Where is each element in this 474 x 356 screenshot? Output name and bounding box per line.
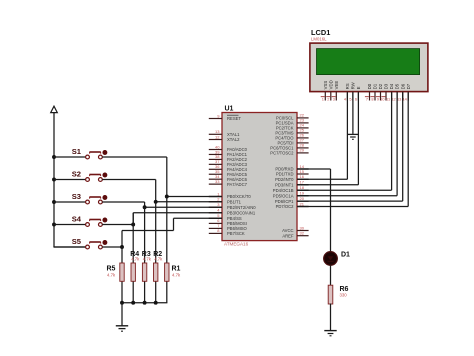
- pin PB3/OC0/AIN1 (pin 4): [209, 208, 256, 216]
- svg-text:VSS: VSS: [323, 81, 328, 90]
- resistor R2 4.7k: [154, 263, 158, 281]
- pin PC6/TOSC1 (pin 28): [270, 143, 308, 151]
- pin PC4/TDO (pin 26): [275, 133, 308, 141]
- value ATMEGA16: [224, 241, 249, 246]
- node rail junction S2: [52, 178, 56, 182]
- pin PA6/ADC6 (pin 34): [209, 174, 248, 182]
- wire U1 PD2 to LCD RS: [297, 92, 347, 179]
- pin LCD D2 (pin 9): [377, 83, 383, 101]
- pin PA7/ADC7 (pin 33): [209, 179, 248, 187]
- pin PD6/ICP1 (pin 20): [275, 196, 309, 204]
- RESET overline: [227, 114, 239, 116]
- pin PC1/SDA (pin 23): [276, 118, 309, 126]
- label D1: [341, 252, 350, 259]
- node LCD D0 open-end mark: [365, 96, 369, 98]
- node rail junction S1: [52, 155, 56, 159]
- pin PD2/INT0 (pin 16): [275, 174, 308, 182]
- svg-text:PB2/INT2/AIN0: PB2/INT2/AIN0: [227, 205, 256, 210]
- pin PC3/TMS (pin 25): [275, 128, 308, 136]
- wire VCC rail corner to S5: [53, 246, 85, 248]
- svg-text:4.7k: 4.7k: [143, 257, 152, 262]
- svg-text:U1: U1: [225, 106, 234, 113]
- resistor R4 4.7k: [131, 263, 135, 281]
- svg-text:6: 6: [355, 96, 357, 101]
- pin PB4/SS (pin 5): [209, 213, 242, 221]
- node LCD VEE open-end mark: [332, 96, 336, 98]
- label R1: [172, 266, 181, 273]
- wire resistor bottom rail: [122, 302, 167, 304]
- svg-text:4.7k: 4.7k: [172, 273, 181, 278]
- wire resistor R3 column: [144, 207, 146, 303]
- svg-text:1: 1: [217, 191, 220, 196]
- wire S4 to PB3: [102, 213, 222, 225]
- node bottom rail junction R5: [120, 301, 124, 305]
- pin LCD D6 (pin 13): [397, 83, 405, 101]
- wire U1 PD3 to LCD E: [297, 92, 358, 185]
- svg-text:S5: S5: [72, 237, 82, 246]
- wire rail to S4 left terminal: [54, 224, 85, 226]
- wire U1 PD0 to LED D1: [297, 169, 331, 252]
- switch S3: [86, 195, 108, 204]
- pin PB0/XCK/T0 (pin 1): [209, 191, 252, 199]
- svg-text:D5: D5: [395, 83, 400, 89]
- svg-text:S3: S3: [72, 192, 81, 201]
- label R2: [153, 251, 162, 258]
- svg-text:PB0/XCK/T0: PB0/XCK/T0: [227, 194, 251, 199]
- value R1 4.7k: [172, 273, 181, 278]
- switch S4: [86, 218, 108, 227]
- svg-text:4: 4: [344, 96, 347, 101]
- svg-text:E: E: [356, 86, 361, 89]
- pin PA1/ADC1 (pin 39): [209, 149, 248, 157]
- svg-text:D2: D2: [378, 83, 383, 89]
- svg-text:PD5/OC1A: PD5/OC1A: [273, 193, 294, 198]
- pin PA3/ADC3 (pin 37): [209, 159, 248, 167]
- wire rail to S5 left terminal: [54, 246, 85, 248]
- svg-text:VEE: VEE: [334, 81, 339, 90]
- svg-text:PD7/OC2: PD7/OC2: [276, 204, 295, 209]
- power symbol +V arrow: [51, 106, 58, 112]
- label R3: [142, 251, 151, 258]
- svg-text:2: 2: [217, 197, 220, 202]
- svg-text:XTAL2: XTAL2: [227, 137, 240, 142]
- pin LCD RW (pin 5): [349, 81, 355, 101]
- node LCD D1 open-end mark: [370, 96, 374, 98]
- svg-text:S4: S4: [72, 215, 82, 224]
- value R5 4.7k: [107, 273, 116, 278]
- wire S2 to PB1: [102, 180, 222, 202]
- svg-text:5: 5: [349, 96, 351, 101]
- resistor R3 4.7k: [142, 263, 146, 281]
- pin PC7/TOSC2 (pin 29): [270, 148, 308, 156]
- svg-text:RW: RW: [351, 81, 356, 89]
- svg-text:D0: D0: [367, 83, 372, 89]
- pin LCD VDD (pin 2): [327, 80, 333, 101]
- value R2 4.7k: [154, 257, 163, 262]
- label LCD1: [311, 28, 330, 37]
- svg-text:RESET: RESET: [227, 116, 241, 121]
- svg-text:17: 17: [300, 180, 305, 185]
- node bottom rail junction R4: [131, 301, 135, 305]
- pin PD7/OC2 (pin 21): [276, 201, 309, 209]
- node rail junction S4: [52, 223, 56, 227]
- node LCD D3 open-end mark: [381, 96, 385, 98]
- wire resistor R4 column: [132, 213, 134, 303]
- pin PA5/ADC5 (pin 35): [209, 169, 248, 177]
- value R4 4.7k: [131, 257, 140, 262]
- svg-text:330: 330: [340, 293, 348, 298]
- switch S5: [86, 240, 108, 249]
- wire U1 PD7 to LCD D7: [297, 92, 408, 206]
- svg-text:RS: RS: [345, 83, 350, 89]
- label S3: [72, 192, 81, 201]
- svg-text:PB3/OC0/AIN1: PB3/OC0/AIN1: [227, 211, 256, 216]
- wire VCC rail vertical: [53, 113, 55, 247]
- pin PC2/TCK (pin 24): [276, 123, 309, 131]
- svg-text:LM016L: LM016L: [311, 37, 327, 42]
- svg-text:ATMEGA16: ATMEGA16: [224, 241, 249, 246]
- pin PC5/TDI (pin 27): [277, 138, 308, 146]
- pin LCD VEE (pin 3): [333, 81, 339, 102]
- resistor R1 4.7k: [165, 263, 169, 281]
- svg-text:4.7k: 4.7k: [107, 273, 116, 278]
- wire S3 to PB2: [102, 202, 222, 207]
- pin LCD D1 (pin 8): [371, 83, 377, 101]
- svg-text:S1: S1: [72, 147, 82, 156]
- node rail junction S3: [52, 200, 56, 204]
- pin PA0/ADC0 (pin 40): [209, 144, 248, 152]
- pin PD4/OC1B (pin 18): [273, 185, 309, 193]
- pin LCD D0 (pin 7): [366, 83, 372, 101]
- node S1/R1/PB0 junction: [165, 195, 169, 199]
- svg-text:AREF: AREF: [282, 233, 294, 238]
- node S3/R3/PB2 junction: [143, 205, 147, 209]
- svg-text:33: 33: [215, 179, 220, 184]
- ground (LED branch): [324, 331, 336, 336]
- op-amp U1 body (ATMEGA16 MCU): [222, 113, 297, 241]
- wire rail to S2 left terminal: [54, 179, 85, 181]
- pin PC0/SCL (pin 22): [276, 113, 309, 121]
- pin XTAL2 (pin 12): [209, 134, 240, 142]
- svg-text:R1: R1: [172, 266, 181, 273]
- wire U1 PD5 to LCD D5: [297, 92, 397, 195]
- label S4: [72, 215, 82, 224]
- label U1: [225, 106, 234, 113]
- svg-text:18: 18: [300, 185, 305, 190]
- pin PD0/RXD (pin 14): [275, 164, 308, 172]
- svg-text:VDD: VDD: [328, 80, 333, 89]
- wire overlays at U1 connected pins: [209, 169, 309, 218]
- pin PB6/MISO (pin 7): [209, 223, 248, 231]
- pin LCD RS (pin 4): [344, 83, 350, 101]
- wire LCD RW to ground: [352, 92, 354, 134]
- svg-text:PD2/INT0: PD2/INT0: [275, 177, 294, 182]
- wire LED D1 to R6: [330, 265, 332, 285]
- svg-text:D7: D7: [406, 83, 411, 89]
- pin PB1/T1 (pin 2): [209, 197, 242, 205]
- pin RESET (pin 9): [209, 113, 242, 121]
- wire S1 to PB0: [102, 157, 222, 197]
- pin LCD D3 (pin 10): [380, 83, 388, 101]
- node bottom rail junction R3: [143, 301, 147, 305]
- wire resistor R5 column: [121, 247, 123, 303]
- svg-text:PC7/TOSC2: PC7/TOSC2: [270, 151, 294, 156]
- svg-text:12: 12: [215, 134, 220, 139]
- pin PA4/ADC4 (pin 36): [209, 164, 248, 172]
- pin XTAL1 (pin 13): [209, 129, 240, 137]
- switch S2: [86, 173, 108, 182]
- node S5/R5 junction: [120, 245, 124, 249]
- LCD1 LM016L body: [310, 43, 428, 92]
- pin PD1/TXD (pin 15): [276, 169, 309, 177]
- wire resistor R2 column: [155, 202, 157, 303]
- wire U1 PD4 to LCD D4: [297, 92, 392, 190]
- pin LCD D4 (pin 11): [386, 83, 394, 101]
- pin LCD D5 (pin 12): [391, 83, 399, 101]
- node LCD VSS open-end mark: [321, 96, 325, 98]
- node LCD VDD open-end mark: [326, 96, 330, 98]
- node S4/R4/PB3 junction: [131, 223, 135, 227]
- label R4: [130, 251, 139, 258]
- value R3 4.7k: [143, 257, 152, 262]
- svg-text:21: 21: [300, 201, 305, 206]
- switch S1: [86, 150, 108, 159]
- svg-text:PD6/ICP1: PD6/ICP1: [275, 199, 294, 204]
- pin PD5/OC1A (pin 19): [273, 191, 309, 199]
- pin AREF (pin 32): [282, 231, 308, 239]
- svg-text:11: 11: [386, 96, 390, 101]
- wire resistor R1 column: [166, 197, 168, 303]
- svg-text:4.7k: 4.7k: [154, 257, 163, 262]
- ground (switch pull-downs): [116, 326, 128, 331]
- wire U1 PD6 to LCD D6: [297, 92, 403, 201]
- svg-text:19: 19: [300, 191, 305, 196]
- resistor R6 330: [328, 285, 333, 304]
- pin PB2/INT2/AIN0 (pin 3): [209, 202, 256, 210]
- wire bottom rail to ground: [121, 303, 123, 326]
- svg-text:PD4/OC1B: PD4/OC1B: [273, 188, 294, 193]
- value LM016L: [311, 37, 327, 42]
- pin PA2/ADC2 (pin 38): [209, 154, 248, 162]
- svg-text:16: 16: [300, 174, 305, 179]
- svg-text:4.7k: 4.7k: [131, 257, 140, 262]
- svg-text:D1: D1: [341, 252, 350, 259]
- wire R6 to ground: [330, 304, 332, 331]
- pin PD3/INT1 (pin 17): [275, 180, 308, 188]
- svg-text:PB7/SCK: PB7/SCK: [227, 231, 245, 236]
- svg-text:D3: D3: [384, 83, 389, 89]
- svg-text:20: 20: [300, 196, 305, 201]
- wire S5 to PB4: [102, 218, 222, 247]
- pin PB5/MOSI (pin 6): [209, 218, 247, 226]
- ground (LCD RW): [347, 134, 358, 139]
- svg-text:D4: D4: [389, 83, 394, 89]
- svg-text:3: 3: [217, 202, 220, 207]
- svg-text:PB1/T1: PB1/T1: [227, 200, 242, 205]
- node LCD D2 open-end mark: [376, 96, 380, 98]
- svg-text:PD3/INT1: PD3/INT1: [275, 183, 294, 188]
- svg-text:D6: D6: [400, 83, 405, 89]
- pin PB7/SCK (pin 8): [209, 228, 245, 236]
- node bottom rail junction R2: [154, 301, 158, 305]
- label S2: [72, 170, 81, 179]
- svg-text:PD1/TXD: PD1/TXD: [276, 172, 294, 177]
- label R5: [107, 266, 116, 273]
- wire rail to S1 left terminal: [54, 156, 85, 158]
- LED D1: [324, 252, 338, 266]
- pin LCD VSS (pin 1): [322, 81, 328, 102]
- pin AVCC (pin 30): [282, 225, 308, 233]
- svg-text:32: 32: [300, 231, 305, 236]
- label S1: [72, 147, 82, 156]
- pin LCD D7 (pin 14): [402, 83, 410, 101]
- svg-text:29: 29: [300, 148, 305, 153]
- svg-text:PA7/ADC7: PA7/ADC7: [227, 182, 248, 187]
- node S2/R2/PB1 junction: [154, 200, 158, 204]
- svg-text:9: 9: [217, 113, 220, 118]
- value R6 330: [340, 293, 348, 298]
- svg-text:S2: S2: [72, 170, 81, 179]
- label S5: [72, 237, 82, 246]
- resistor R5 4.7k: [120, 263, 124, 281]
- svg-text:R5: R5: [107, 266, 116, 273]
- svg-text:D1: D1: [373, 83, 378, 89]
- wire rail to S3 left terminal: [54, 201, 85, 203]
- pin LCD E (pin 6): [355, 86, 361, 101]
- label R6: [340, 286, 349, 293]
- svg-text:4: 4: [217, 208, 220, 213]
